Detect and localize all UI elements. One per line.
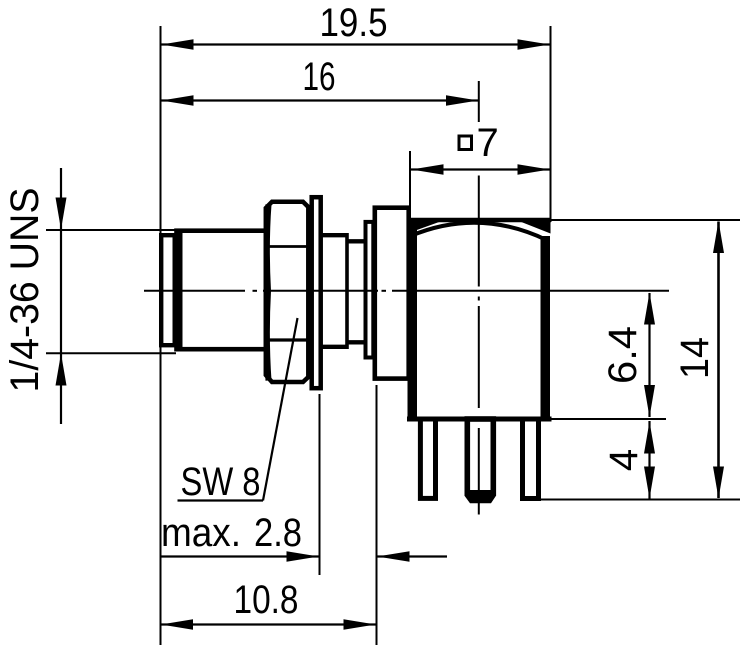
- hex nut facet line upper: [265, 245, 307, 248]
- pin right: [523, 419, 539, 499]
- extension line pin bottom: [541, 499, 740, 501]
- flange: [375, 208, 409, 379]
- dimension 10.8 line: [160, 623, 376, 625]
- body inner arc: [411, 223, 547, 240]
- dimension 16 arrows: [162, 95, 479, 106]
- extension line body left: [409, 151, 411, 206]
- centerline vertical axis: [478, 176, 480, 515]
- dimension 4 line: [648, 421, 650, 499]
- dimension 14 arrows: [713, 221, 724, 499]
- body corner wedge left: [409, 220, 447, 234]
- dimension thread line: [60, 168, 62, 424]
- svg-text:10.8: 10.8: [234, 578, 299, 622]
- cylinder section 1 top: [321, 233, 349, 237]
- body bottom line: [407, 417, 552, 422]
- front plate: [366, 222, 374, 358]
- dimension square-7 arrows: [412, 164, 550, 175]
- extension line thread top: [46, 229, 176, 231]
- svg-text:16: 16: [303, 55, 336, 99]
- body top line: [408, 218, 552, 222]
- body right edge: [541, 236, 551, 422]
- threaded barrel: [177, 231, 267, 350]
- dimension max 2.8 arrows: [287, 551, 410, 562]
- cylinder section boundary edge: [345, 233, 349, 349]
- cylinder section 2 bottom: [347, 340, 365, 344]
- dimension 19.5 arrows: [162, 39, 550, 50]
- centerline horizontal axis: [144, 290, 669, 292]
- cylinder section 2 top: [347, 239, 365, 243]
- extension line left face: [160, 26, 162, 645]
- pin left: [420, 419, 435, 498]
- dimension max 2.8 line left: [160, 555, 319, 557]
- pin center tip: [465, 490, 497, 503]
- svg-text:6.4: 6.4: [601, 326, 645, 384]
- extension line thread bottom: [46, 352, 176, 354]
- svg-text:1/4-36 UNS: 1/4-36 UNS: [3, 188, 47, 393]
- extension line right face: [550, 26, 552, 222]
- hex nut left curved edge: [267, 205, 269, 381]
- label SW 8 leader: [263, 318, 298, 501]
- svg-text:SW 8: SW 8: [181, 460, 261, 504]
- dimension 14 line: [717, 222, 720, 499]
- svg-text:19.5: 19.5: [320, 1, 388, 45]
- label SW 8 underline: [178, 499, 264, 501]
- extension line washer rear: [319, 394, 321, 575]
- dimension 10.8 arrows: [161, 619, 376, 630]
- dimension 19.5 line: [161, 43, 550, 45]
- extension line body bottom right: [551, 418, 666, 420]
- pin center: [467, 419, 493, 493]
- hex nut facet line lower: [265, 338, 307, 341]
- washer: [312, 197, 321, 388]
- dimension 4 arrows: [644, 422, 655, 499]
- svg-text:7: 7: [477, 121, 499, 165]
- body left edge: [408, 229, 418, 422]
- dimension 16 line: [161, 99, 479, 101]
- svg-text:2.8: 2.8: [254, 511, 302, 555]
- extension line body top right: [551, 219, 740, 221]
- dimension 6.4 line: [648, 293, 650, 417]
- dimension thread arrows: [56, 198, 67, 386]
- svg-text:max.: max.: [161, 511, 241, 555]
- extension line flange front: [376, 385, 378, 645]
- dimension square-7 line: [411, 168, 550, 170]
- barrel left thick edge: [178, 231, 183, 351]
- mating face step: [161, 235, 175, 345]
- dimension 6.4 arrows: [644, 293, 655, 418]
- body corner wedge right: [515, 220, 551, 234]
- hex nut SW8 outline: [266, 202, 309, 382]
- cylinder section 1 bottom: [321, 345, 349, 349]
- svg-text:14: 14: [673, 337, 717, 379]
- dimension square-7 symbol: [459, 136, 472, 150]
- svg-text:4: 4: [602, 449, 646, 471]
- extension tick center axis top: [478, 81, 480, 122]
- dimension max 2.8 line right: [378, 555, 448, 557]
